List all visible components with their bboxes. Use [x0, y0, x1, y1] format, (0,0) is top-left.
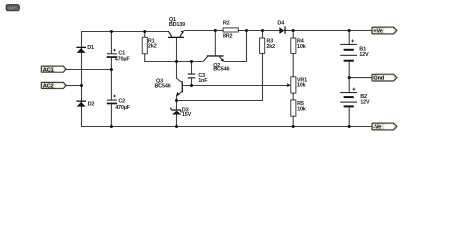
svg-text:1nF: 1nF — [198, 78, 208, 84]
resistor R5 — [291, 100, 307, 116]
capacitor C1 — [107, 49, 131, 63]
wire Q2 base lead — [214, 31, 216, 56]
svg-text:BD139: BD139 — [169, 22, 185, 28]
badge — [6, 5, 19, 11]
junction node B2 bottom — [348, 125, 351, 128]
junction node R3 top — [261, 29, 264, 32]
junction node C3 top — [190, 60, 193, 63]
svg-text:2k2: 2k2 — [266, 44, 275, 50]
svg-text:8R2: 8R2 — [223, 34, 233, 40]
transistor Q1 — [168, 17, 185, 38]
connector -Ve — [372, 123, 397, 131]
wire left vertical (diode branch) — [81, 32, 83, 127]
wire R3 branch to zener node — [176, 31, 263, 101]
junction node zener top — [175, 99, 178, 102]
junction node ground mid — [348, 76, 351, 79]
wire AC1 to node — [66, 69, 111, 71]
resistor R3 — [260, 38, 276, 53]
diode D4 — [277, 21, 285, 34]
zener D3 — [171, 108, 192, 118]
svg-text:15V: 15V — [182, 112, 192, 118]
svg-text:SMPS: SMPS — [7, 6, 18, 11]
diode D1 — [76, 45, 94, 53]
transistor Q2 — [204, 55, 230, 72]
svg-text:12V: 12V — [360, 99, 370, 105]
resistor R2 — [223, 20, 238, 39]
svg-text:R2: R2 — [223, 20, 230, 26]
junction node Q2 base rail — [214, 29, 217, 32]
svg-text:AC1: AC1 — [43, 67, 55, 73]
wire Q3 emitter / zener branch — [177, 92, 182, 127]
svg-text:AC2: AC2 — [43, 84, 54, 90]
junction node C2 bottom — [110, 125, 113, 128]
wire Q3 base / VR1 wiper — [183, 85, 288, 87]
wire C3 branch — [191, 62, 193, 86]
battery B1 — [340, 40, 369, 62]
junction node C1 top — [110, 30, 113, 33]
capacitor C3 — [188, 73, 209, 84]
svg-text:-Ve: -Ve — [373, 125, 382, 131]
svg-text:Gnd: Gnd — [373, 76, 384, 82]
junction node zener bottom — [175, 125, 178, 128]
svg-text:470µF: 470µF — [115, 56, 131, 62]
svg-text:D1: D1 — [87, 45, 94, 51]
connector +Ve — [372, 27, 397, 34]
svg-text:2k2: 2k2 — [148, 44, 157, 50]
resistor R4 — [291, 38, 307, 53]
svg-text:D4: D4 — [277, 21, 285, 27]
svg-text:10k: 10k — [297, 107, 307, 113]
battery B2 — [340, 88, 370, 108]
junction node Q1 base — [175, 60, 178, 63]
wire R1 branch and Q1 base rail — [145, 32, 204, 62]
connector Gnd — [372, 74, 397, 82]
junction node B1 top — [348, 29, 351, 32]
wire R4 VR1 R5 divider branch — [292, 31, 294, 127]
wire Q1 base lead — [176, 38, 178, 62]
capacitor C2 — [107, 95, 131, 111]
junction node C3 bottom — [190, 84, 193, 87]
junction node R1 top — [143, 30, 146, 33]
wire bottom rail — [81, 126, 372, 128]
connector AC1 — [41, 66, 66, 73]
junction node AC1 — [110, 68, 113, 71]
wire battery B2 leads — [348, 78, 350, 127]
wire top rail left segment — [81, 31, 168, 33]
svg-text:470µF: 470µF — [115, 105, 131, 111]
wire top rail right segment — [184, 30, 372, 32]
svg-text:12V: 12V — [359, 52, 369, 58]
connector AC2 — [41, 82, 66, 89]
potentiometer VR1 — [287, 77, 307, 93]
junction node R4 top — [292, 29, 295, 32]
junction node AC2 — [80, 84, 83, 87]
wire capacitor branch C1/C2 — [110, 32, 112, 127]
wire Q3 collector to Q1 base node — [177, 62, 182, 83]
svg-text:D2: D2 — [88, 102, 95, 108]
svg-text:10k: 10k — [297, 44, 307, 50]
svg-text:BC546: BC546 — [155, 84, 171, 90]
svg-text:C2: C2 — [118, 98, 125, 104]
svg-text:10k: 10k — [297, 82, 307, 88]
svg-text:+Ve: +Ve — [373, 29, 383, 35]
diode D2 — [76, 101, 94, 108]
wire battery B1 leads — [348, 31, 350, 78]
wire Q2 emitter return to rail — [224, 31, 247, 62]
junction node R5 bottom — [292, 125, 295, 128]
transistor Q3 — [155, 78, 183, 96]
svg-text:BC546: BC546 — [213, 67, 229, 73]
junction node Q2 emitter rail — [245, 29, 248, 32]
wire ground to Gnd tag — [349, 77, 372, 79]
resistor R1 — [142, 37, 156, 54]
wire AC2 to node — [66, 85, 82, 87]
